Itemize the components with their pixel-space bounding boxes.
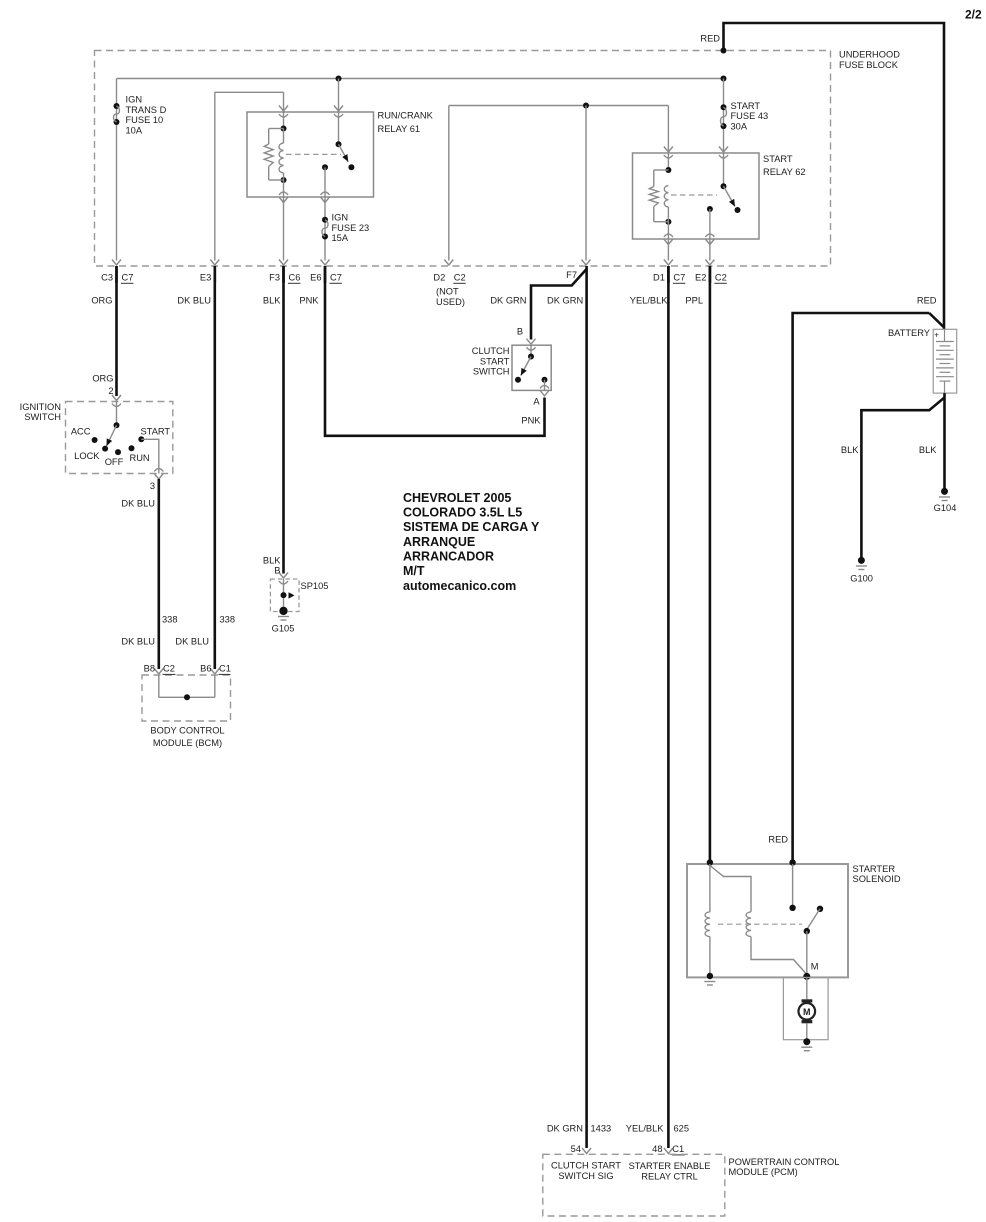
- svg-text:RED: RED: [700, 34, 720, 44]
- svg-text:30A: 30A: [731, 122, 748, 132]
- svg-text:PPL: PPL: [685, 296, 703, 306]
- svg-text:SP105: SP105: [301, 581, 329, 591]
- svg-text:54: 54: [571, 1144, 581, 1154]
- svg-text:FUSE BLOCK: FUSE BLOCK: [839, 60, 899, 70]
- svg-text:CLUTCH START: CLUTCH START: [551, 1161, 621, 1171]
- svg-text:RELAY 61: RELAY 61: [378, 124, 421, 134]
- svg-text:1433: 1433: [591, 1123, 612, 1133]
- svg-text:IGN: IGN: [126, 95, 143, 105]
- svg-text:C7: C7: [330, 272, 342, 282]
- svg-text:ACC: ACC: [71, 427, 91, 437]
- svg-text:ORG: ORG: [92, 373, 113, 383]
- svg-text:START: START: [731, 101, 761, 111]
- svg-text:CHEVROLET 2005: CHEVROLET 2005: [403, 491, 511, 505]
- svg-text:FUSE 10: FUSE 10: [126, 115, 164, 125]
- svg-text:MODULE (BCM): MODULE (BCM): [153, 738, 222, 748]
- svg-text:LOCK: LOCK: [74, 451, 100, 461]
- svg-text:TRANS D: TRANS D: [126, 105, 167, 115]
- svg-text:BODY CONTROL: BODY CONTROL: [150, 725, 224, 735]
- svg-text:D2: D2: [433, 272, 445, 282]
- svg-text:ARRANQUE: ARRANQUE: [403, 535, 475, 549]
- svg-text:A: A: [533, 396, 540, 406]
- svg-text:C1: C1: [219, 663, 231, 673]
- svg-text:B: B: [274, 565, 280, 575]
- svg-text:PNK: PNK: [521, 415, 541, 425]
- svg-text:E3: E3: [200, 272, 211, 282]
- svg-text:BLK: BLK: [919, 445, 937, 455]
- svg-text:C3: C3: [101, 272, 113, 282]
- svg-text:M: M: [803, 1007, 811, 1017]
- svg-text:MODULE (PCM): MODULE (PCM): [729, 1167, 798, 1177]
- svg-text:+: +: [934, 330, 939, 339]
- svg-text:IGN: IGN: [332, 212, 349, 222]
- svg-text:F3: F3: [269, 272, 280, 282]
- svg-text:RELAY CTRL: RELAY CTRL: [641, 1172, 698, 1182]
- svg-text:DK BLU: DK BLU: [121, 636, 155, 646]
- svg-text:M: M: [811, 961, 819, 971]
- svg-text:E6: E6: [310, 272, 321, 282]
- svg-text:BATTERY: BATTERY: [888, 328, 930, 338]
- svg-text:DK BLU: DK BLU: [177, 296, 211, 306]
- svg-text:RED: RED: [768, 834, 788, 844]
- svg-text:IGNITION: IGNITION: [20, 402, 61, 412]
- svg-text:15A: 15A: [332, 233, 349, 243]
- svg-text:M/T: M/T: [403, 564, 425, 578]
- svg-text:C6: C6: [289, 272, 301, 282]
- svg-text:DK GRN: DK GRN: [547, 296, 583, 306]
- svg-text:F7: F7: [566, 270, 577, 280]
- svg-text:338: 338: [220, 615, 236, 625]
- svg-text:ORG: ORG: [91, 296, 112, 306]
- svg-text:START: START: [141, 427, 171, 437]
- svg-text:D1: D1: [653, 272, 665, 282]
- svg-text:STARTER ENABLE: STARTER ENABLE: [629, 1161, 711, 1171]
- svg-text:C2: C2: [163, 663, 175, 673]
- svg-text:2/2: 2/2: [965, 8, 982, 22]
- svg-text:UNDERHOOD: UNDERHOOD: [839, 50, 900, 60]
- svg-text:BLK: BLK: [263, 296, 281, 306]
- svg-text:SWITCH: SWITCH: [473, 367, 510, 377]
- svg-text:G100: G100: [850, 573, 873, 583]
- svg-text:START: START: [480, 356, 510, 366]
- svg-text:RUN/CRANK: RUN/CRANK: [378, 111, 434, 121]
- svg-text:B8: B8: [144, 663, 155, 673]
- svg-text:(NOT: (NOT: [436, 287, 459, 297]
- svg-text:BLK: BLK: [841, 445, 859, 455]
- svg-text:G105: G105: [272, 623, 295, 633]
- svg-text:C7: C7: [122, 272, 134, 282]
- svg-text:2: 2: [108, 386, 113, 396]
- svg-text:338: 338: [162, 615, 178, 625]
- svg-text:automecanico.com: automecanico.com: [403, 579, 516, 593]
- svg-text:PNK: PNK: [299, 296, 319, 306]
- svg-text:DK BLU: DK BLU: [175, 636, 209, 646]
- svg-text:C2: C2: [454, 272, 466, 282]
- svg-text:B: B: [517, 327, 523, 337]
- svg-text:FUSE 43: FUSE 43: [731, 111, 769, 121]
- svg-text:COLORADO 3.5L L5: COLORADO 3.5L L5: [403, 506, 522, 520]
- svg-text:YEL/BLK: YEL/BLK: [626, 1123, 665, 1133]
- svg-text:SWITCH SIG: SWITCH SIG: [558, 1171, 613, 1181]
- svg-text:SWITCH: SWITCH: [24, 412, 61, 422]
- svg-text:YEL/BLK: YEL/BLK: [630, 296, 669, 306]
- svg-text:RED: RED: [917, 295, 937, 305]
- svg-text:3: 3: [150, 481, 155, 491]
- svg-text:10A: 10A: [126, 125, 143, 135]
- svg-text:RUN: RUN: [130, 453, 150, 463]
- svg-text:SISTEMA DE CARGA Y: SISTEMA DE CARGA Y: [403, 520, 540, 534]
- svg-text:E2: E2: [695, 272, 706, 282]
- svg-text:SOLENOID: SOLENOID: [853, 874, 901, 884]
- svg-text:BLK: BLK: [263, 555, 281, 565]
- svg-text:RELAY 62: RELAY 62: [763, 167, 806, 177]
- svg-text:USED): USED): [436, 297, 465, 307]
- svg-text:48: 48: [652, 1144, 662, 1154]
- svg-text:STARTER: STARTER: [853, 864, 896, 874]
- svg-text:C2: C2: [715, 272, 727, 282]
- svg-text:DK GRN: DK GRN: [547, 1123, 583, 1133]
- svg-text:FUSE 23: FUSE 23: [332, 223, 370, 233]
- svg-text:B6: B6: [200, 663, 211, 673]
- svg-text:C1: C1: [672, 1144, 684, 1154]
- svg-text:POWERTRAIN CONTROL: POWERTRAIN CONTROL: [729, 1157, 840, 1167]
- svg-text:OFF: OFF: [105, 457, 124, 467]
- svg-text:CLUTCH: CLUTCH: [472, 346, 510, 356]
- svg-text:START: START: [763, 154, 793, 164]
- svg-text:DK GRN: DK GRN: [490, 296, 526, 306]
- svg-text:ARRANCADOR: ARRANCADOR: [403, 550, 494, 564]
- svg-text:625: 625: [674, 1123, 690, 1133]
- svg-text:G104: G104: [934, 503, 957, 513]
- svg-text:DK BLU: DK BLU: [121, 499, 155, 509]
- svg-text:C7: C7: [673, 272, 685, 282]
